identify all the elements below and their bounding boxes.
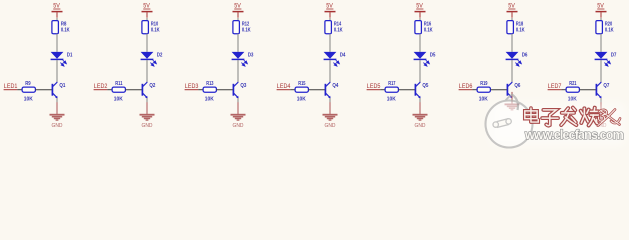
wire R16 to D5 [419,34,421,52]
wire 5V to R14 [329,18,331,21]
wire 5V to R10 [146,18,148,21]
wire Q1 emitter to GND [56,98,58,102]
node LED7 (net label) [548,84,562,90]
wire R14 to D4 [329,34,331,52]
resistor R10 0.1K [142,21,160,34]
resistor R15 10K [295,81,308,103]
svg-text:D6: D6 [522,52,528,58]
svg-text:0.1K: 0.1K [61,28,70,34]
wire 5V to R8 [56,18,58,21]
wire LED5 to R17 [380,89,385,91]
wire Q5 emitter to GND [419,98,421,102]
wire D4 to Q4 collector [329,60,331,83]
transistor Q6 (NPN) [507,82,521,98]
wire R13 to Q3 base [216,89,232,91]
svg-text:10K: 10K [24,97,34,103]
wire LED1 to R9 [17,89,22,91]
watermark text dian-zi-fa-shao-you [525,108,620,126]
wire R17 to Q5 base [398,89,414,91]
ground (stage 4) [323,102,338,129]
node LED6 (net label) [459,84,473,90]
wire LED6 to R19 [472,89,477,91]
resistor R20 0.1K [596,21,614,34]
resistor R8 0.1K [52,21,70,34]
resistor R19 10K [477,81,490,103]
transistor Q2 (NPN) [142,82,155,98]
svg-text:10K: 10K [297,97,307,103]
transistor Q7 (NPN) [596,82,609,98]
svg-text:D7: D7 [611,52,617,58]
wire 5V to R16 [419,18,421,21]
wire 5V to R12 [237,18,239,21]
transistor Q1 (NPN) [52,82,66,98]
svg-text:R9: R9 [25,81,31,87]
node LED3 (net label) [185,84,199,90]
ground (stage 3) [231,102,246,129]
power +5V (stage 4) [325,4,336,18]
wire 5V to R20 [600,18,602,21]
ground (stage 2) [140,102,155,129]
resistor R13 10K [203,81,216,103]
svg-text:10K: 10K [205,97,215,103]
power +5V (stage 7) [596,4,607,18]
svg-text:R8: R8 [61,21,67,27]
svg-text:Q2: Q2 [149,83,155,89]
LED D6 [506,52,528,66]
svg-text:GND: GND [233,123,244,129]
LED D7 [595,52,617,66]
wire LED4 to R15 [290,89,295,91]
resistor R17 10K [385,81,398,103]
wire D2 to Q2 collector [146,60,148,83]
svg-text:D1: D1 [67,52,73,58]
LED D3 [232,52,254,66]
svg-text:R13: R13 [206,81,214,87]
resistor R18 0.1K [507,21,525,34]
wire Q2 emitter to GND [146,98,148,102]
transistor Q5 (NPN) [415,82,429,98]
wire Q3 emitter to GND [237,98,239,102]
svg-text:Q1: Q1 [59,83,66,89]
node LED2 (net label) [94,84,108,90]
svg-text:0.1K: 0.1K [516,28,525,34]
svg-text:Q5: Q5 [422,83,429,89]
power +5V (stage 6) [507,4,518,18]
wire Q6 emitter to GND [511,92,513,98]
svg-text:R18: R18 [516,21,524,27]
svg-text:D5: D5 [430,52,436,58]
resistor R16 0.1K [415,21,433,34]
svg-text:10K: 10K [114,97,124,103]
wire R8 to D1 [56,34,58,52]
resistor R11 10K [112,81,125,103]
wire R11 to Q2 base [125,89,141,91]
svg-text:10K: 10K [479,97,489,103]
node LED5 (net label) [367,84,381,90]
svg-text:D2: D2 [157,52,163,58]
svg-text:Q6: Q6 [514,83,521,89]
svg-text:R21: R21 [569,81,577,87]
svg-text:R19: R19 [480,81,488,87]
svg-text:0.1K: 0.1K [334,28,343,34]
wire R9 to Q1 base [35,89,51,91]
svg-text:GND: GND [142,123,153,129]
wire D6 to Q6 collector [511,60,513,83]
ground (stage 6) [505,92,520,110]
wire Q4 emitter to GND [329,98,331,102]
wire LED2 to R11 [107,89,112,91]
svg-text:R11: R11 [115,81,123,87]
svg-text:R10: R10 [151,21,158,27]
wire R20 to D7 [600,34,602,52]
svg-text:10K: 10K [568,97,578,103]
wire D7 to Q7 collector [600,60,602,83]
svg-text:0.1K: 0.1K [424,28,433,34]
LED D5 [414,52,436,66]
ground (stage 5) [413,102,428,129]
resistor R21 10K [566,81,579,103]
svg-text:R20: R20 [605,21,612,27]
svg-text:R17: R17 [388,81,395,87]
watermark logo (elecfans bubble) [486,95,533,148]
svg-text:Q3: Q3 [240,83,247,89]
svg-text:Q7: Q7 [603,83,609,89]
svg-text:R14: R14 [334,21,342,27]
wire R19 to Q6 base [490,89,506,91]
wire R12 to D3 [237,34,239,52]
wire D3 to Q3 collector [237,60,239,83]
transistor Q4 (NPN) [325,82,339,98]
wire D5 to Q5 collector [419,60,421,83]
wire R10 to D2 [146,34,148,52]
wire R15 to Q4 base [308,89,324,91]
transistor Q3 (NPN) [233,82,247,98]
resistor R12 0.1K [233,21,251,34]
svg-text:GND: GND [325,123,336,129]
node LED4 (net label) [277,84,291,90]
wire Q7 emitter to GND [600,98,602,102]
svg-text:D3: D3 [248,52,254,58]
resistor R9 10K [22,81,35,103]
power +5V (stage 1) [52,4,63,18]
svg-text:0.1K: 0.1K [605,28,614,34]
svg-text:R15: R15 [298,81,306,87]
LED D1 [51,52,73,66]
svg-text:www.elecfans.com: www.elecfans.com [524,128,624,142]
svg-text:GND: GND [52,123,63,129]
svg-text:10K: 10K [387,97,397,103]
svg-text:Q4: Q4 [332,83,339,89]
wire 5V to R18 [511,18,513,21]
power +5V (stage 3) [233,4,244,18]
svg-text:R12: R12 [242,21,249,27]
ground (stage 1) [50,102,65,129]
wire D1 to Q1 collector [56,60,58,83]
resistor R14 0.1K [325,21,343,34]
ground (stage 7) [594,102,609,129]
svg-text:D4: D4 [340,52,346,58]
wire LED7 to R21 [561,89,566,91]
LED D4 [324,52,346,66]
power +5V (stage 2) [142,4,153,18]
svg-text:R16: R16 [424,21,432,27]
LED D2 [141,52,163,66]
wire R21 to Q7 base [579,89,595,91]
svg-text:0.1K: 0.1K [242,28,251,34]
svg-text:GND: GND [415,123,426,129]
power +5V (stage 5) [415,4,426,18]
node LED1 (net label) [4,84,18,90]
wire R18 to D6 [511,34,513,52]
svg-text:0.1K: 0.1K [151,28,160,34]
wire LED3 to R13 [198,89,203,91]
